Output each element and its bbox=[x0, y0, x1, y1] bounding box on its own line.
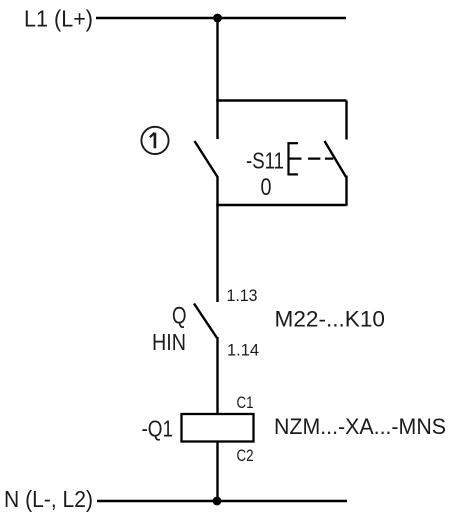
junction bottom rail bbox=[213, 497, 222, 506]
wire right branch vertical lower bbox=[345, 176, 347, 206]
svg-text:0: 0 bbox=[261, 174, 272, 201]
svg-text:C2: C2 bbox=[237, 446, 254, 465]
coil Q1 box bbox=[182, 414, 254, 442]
wire right branch vertical upper bbox=[345, 101, 347, 140]
svg-text:C1: C1 bbox=[237, 393, 254, 412]
svg-text:M22-...K10: M22-...K10 bbox=[275, 307, 386, 332]
svg-text:1.14: 1.14 bbox=[227, 340, 259, 359]
svg-text:-Q1: -Q1 bbox=[142, 415, 174, 441]
wire N bottom rail bbox=[97, 500, 347, 502]
svg-text:HIN: HIN bbox=[152, 329, 186, 355]
svg-text:N (L-, L2): N (L-, L2) bbox=[4, 486, 93, 512]
contact blade Q HIN bbox=[194, 304, 217, 339]
svg-text:-S11: -S11 bbox=[246, 147, 284, 173]
wire L1 top rail bbox=[96, 17, 346, 19]
junction top rail bbox=[213, 14, 222, 23]
S11 mechanical link dashed bbox=[308, 158, 333, 160]
S11 maintained actuator symbol bbox=[289, 142, 302, 176]
contact blade right (S11) bbox=[325, 141, 347, 177]
svg-text:NZM...-XA...-MNS: NZM...-XA...-MNS bbox=[274, 414, 446, 439]
wire main vertical branch to contact 1.13 bbox=[216, 176, 218, 302]
wire vertical contact to coil bbox=[216, 337, 218, 414]
svg-text:1.13: 1.13 bbox=[227, 286, 258, 305]
wire main vertical from L1 to left contact bbox=[216, 18, 218, 139]
svg-text:L1 (L+): L1 (L+) bbox=[24, 5, 93, 31]
svg-text:Q: Q bbox=[172, 303, 187, 330]
node 1 callout circle bbox=[141, 127, 168, 154]
wire vertical coil to N rail bbox=[216, 442, 218, 502]
wire branch top horizontal bbox=[216, 99, 346, 101]
wire branch bottom horizontal bbox=[216, 204, 346, 206]
contact blade left (auxiliary contact 1) bbox=[195, 141, 218, 177]
